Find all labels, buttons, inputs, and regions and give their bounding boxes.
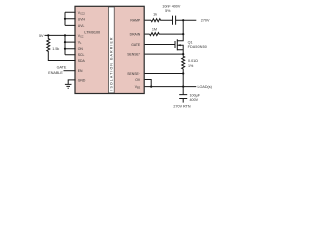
wire cap to 270V RTN <box>182 99 184 103</box>
node junction dot sense+ <box>182 53 184 55</box>
svg-text:VEE: VEE <box>135 85 141 90</box>
node junction dot 5V/resistor <box>47 34 49 36</box>
svg-text:UVL: UVL <box>78 24 85 28</box>
svg-text:1.5k: 1.5k <box>52 47 59 51</box>
node junction dot drain <box>182 33 184 35</box>
svg-text:1M: 1M <box>152 27 157 31</box>
wire GATE ENABLE to EN <box>64 70 76 72</box>
wire OV pin <box>145 80 152 87</box>
svg-text:0.01Ω: 0.01Ω <box>188 59 198 63</box>
wire RAMP pin <box>145 19 151 21</box>
wire GND pin <box>68 80 75 84</box>
svg-text:270V RTN: 270V RTN <box>173 104 190 108</box>
wire SENSE- pin <box>145 73 184 75</box>
node junction dot 270V rail <box>182 19 184 21</box>
svg-text:DRAIN: DRAIN <box>130 33 141 37</box>
svg-text:ON: ON <box>78 47 84 51</box>
svg-text:Q1: Q1 <box>188 40 193 44</box>
svg-text:LOAD(s): LOAD(s) <box>198 85 212 89</box>
svg-text:OV: OV <box>135 78 141 82</box>
wire load node to output cap <box>182 87 184 95</box>
node junction dot bracket <box>64 18 66 20</box>
wire jumper bus VCC/VL/ON/SCL <box>65 35 76 54</box>
capacitor C 100uF 400V <box>179 95 187 99</box>
svg-text:SENSE−: SENSE− <box>127 72 141 76</box>
wire DRAIN pin <box>145 33 150 35</box>
wire 5V to VCC <box>45 34 76 36</box>
svg-text:1k: 1k <box>153 13 157 17</box>
resistor R 1k <box>151 19 172 22</box>
wire sense to load rail <box>182 74 184 87</box>
transistor Q1 body arrow <box>178 44 181 46</box>
resistor R sense 0.01 ohm <box>182 54 185 73</box>
node junction dot bus/VL <box>64 41 66 43</box>
wire VEE pin to load node <box>145 86 197 88</box>
ground <box>65 84 72 88</box>
isolation barrier stripe <box>109 7 115 93</box>
svg-text:SENSE+: SENSE+ <box>127 53 141 57</box>
wire jumper bracket VCC2/UVH/UVL <box>65 12 76 25</box>
svg-text:LTM9100: LTM9100 <box>84 31 100 35</box>
svg-text:VCC2: VCC2 <box>78 11 86 16</box>
svg-text:5V: 5V <box>39 34 44 38</box>
svg-text:SDA: SDA <box>78 59 86 63</box>
node junction dot load <box>182 86 184 88</box>
svg-text:100µF: 100µF <box>190 93 201 97</box>
resistor R 1.5k pull-up <box>47 35 76 60</box>
svg-text:ENABLE: ENABLE <box>48 71 63 75</box>
svg-text:VCC: VCC <box>78 34 84 39</box>
svg-text:5%: 5% <box>165 9 171 13</box>
capacitor C 10nF 400V <box>173 16 176 25</box>
wire SENSE+ pin <box>145 53 184 55</box>
wire 270V rail down to Q1 drain <box>177 20 183 41</box>
svg-text:GND: GND <box>78 78 86 82</box>
wire GATE pin to Q1 <box>145 44 175 46</box>
node junction dot bus/ON <box>64 48 66 50</box>
svg-text:EN: EN <box>78 69 83 73</box>
svg-text:1%: 1% <box>188 64 194 68</box>
node junction dot 5V/bus <box>64 34 66 36</box>
op-amp U1 (LTM9100 module body) <box>75 6 144 93</box>
node junction dot sense- <box>182 72 184 74</box>
svg-text:UVH: UVH <box>78 17 86 21</box>
wire cap to 270V input <box>176 19 197 21</box>
svg-text:270V: 270V <box>201 19 210 23</box>
svg-text:FDA50N50: FDA50N50 <box>188 45 207 49</box>
svg-text:GATE: GATE <box>57 66 67 70</box>
svg-text:GATE: GATE <box>131 43 141 47</box>
transistor Q1 N-MOSFET <box>175 39 183 54</box>
svg-text:400V: 400V <box>190 98 199 102</box>
node junction dot OV/VEE <box>150 86 152 88</box>
resistor R 1M <box>150 33 184 36</box>
svg-text:ISOLATION BARRIER: ISOLATION BARRIER <box>110 36 114 90</box>
svg-text:RAMP: RAMP <box>130 19 141 23</box>
svg-text:SCL: SCL <box>78 53 85 57</box>
